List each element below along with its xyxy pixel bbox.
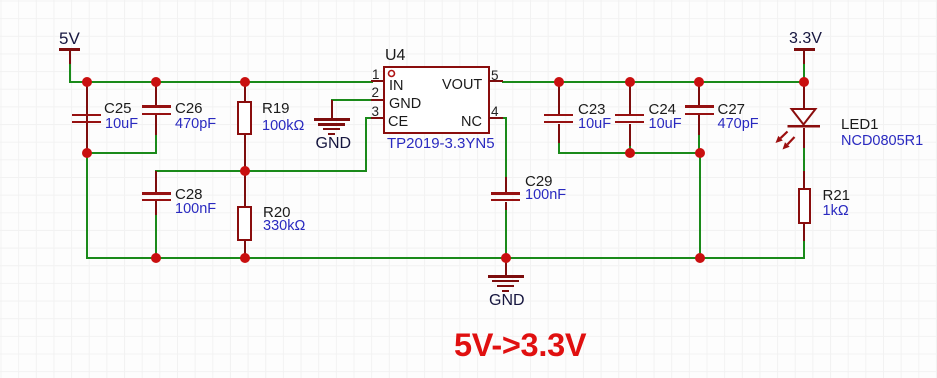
- capacitor C27: [698, 82, 700, 106]
- wire vertical from C25 node down to bottom rail: [86, 153, 88, 259]
- junction C27 top: [694, 77, 704, 87]
- ground symbol (bottom rail): [505, 258, 507, 276]
- power flag 3.3V: [789, 31, 822, 47]
- wire 3.3V stem green: [803, 64, 805, 82]
- wire C25-C26 bottom link: [86, 152, 157, 154]
- junction C25 top: [82, 77, 92, 87]
- pin name VOUT: [442, 78, 482, 93]
- pin name NC: [461, 115, 482, 130]
- wire vertical x699 to bottom rail: [699, 153, 701, 258]
- wire pin2 horiz to GND: [331, 99, 373, 101]
- pin name GND: [389, 97, 421, 112]
- wire top rail left (5V to U4 pin1): [69, 81, 373, 83]
- junction R20 bottom: [240, 253, 250, 263]
- wire 5V stem: [69, 64, 71, 82]
- capacitor C29: [505, 177, 507, 193]
- wire C27 lower green: [698, 135, 700, 154]
- wire bottom rail: [86, 257, 805, 259]
- capacitor C25: [86, 82, 88, 153]
- LED LED1 leads: [803, 82, 805, 109]
- pin 5 stub: [489, 80, 503, 82]
- wire pin3 horiz: [365, 117, 373, 119]
- wire output caps bottom link: [558, 152, 701, 154]
- junction C28 bottom: [151, 253, 161, 263]
- LED arrows: [781, 132, 788, 139]
- wire C29 bottom green: [505, 209, 507, 259]
- junction C23 top: [554, 77, 564, 87]
- op-amp U4 (regulator box): [383, 66, 490, 134]
- pin 3 stub: [371, 117, 383, 119]
- wire rail2 (CE node): [155, 170, 367, 172]
- junction C24 bottom: [625, 148, 635, 158]
- junction x699 bottom rail: [695, 253, 705, 263]
- ground symbol (U4 GND pin): [331, 100, 333, 119]
- junction C24 top: [625, 77, 635, 87]
- junction GND bottom rail: [501, 253, 511, 263]
- junction C25 bottom: [82, 148, 92, 158]
- title 5V->3.3V: [454, 329, 586, 362]
- capacitor C23: [558, 82, 560, 114]
- wire vertical x505 NC/C29: [505, 117, 507, 178]
- junction C27 bottom: [695, 148, 705, 158]
- power flag 5V: [59, 30, 80, 47]
- resistor R19: [244, 82, 246, 102]
- wire top rail right (pin5 to 3.3V): [502, 81, 804, 83]
- capacitor C24: [629, 82, 631, 114]
- wire R21 bottom green: [803, 241, 805, 259]
- wire LED cathode green: [803, 147, 805, 172]
- wire pin4 horiz: [502, 117, 507, 119]
- pin name CE: [388, 115, 408, 130]
- junction C26 top: [151, 77, 161, 87]
- resistor R20: [244, 171, 246, 207]
- pin name IN: [389, 79, 404, 94]
- resistor R21: [803, 171, 805, 188]
- capacitor C28: [155, 171, 157, 194]
- wire C24 lower green: [629, 145, 631, 154]
- pin 1 stub: [371, 80, 383, 82]
- pin 2 stub: [371, 99, 383, 101]
- junction R19/R20 CE node: [240, 166, 250, 176]
- wire vertical x366 CE riser: [365, 117, 367, 171]
- LED LED1 triangle: [792, 109, 816, 125]
- wire C28 bottom green: [155, 214, 157, 258]
- junction 3.3V/LED: [799, 77, 809, 87]
- capacitor C26: [155, 82, 157, 106]
- pin 4 stub: [489, 117, 503, 119]
- wire C26 lower green: [155, 135, 157, 154]
- wire C23 lower green: [558, 142, 560, 154]
- junction R19 top: [240, 77, 250, 87]
